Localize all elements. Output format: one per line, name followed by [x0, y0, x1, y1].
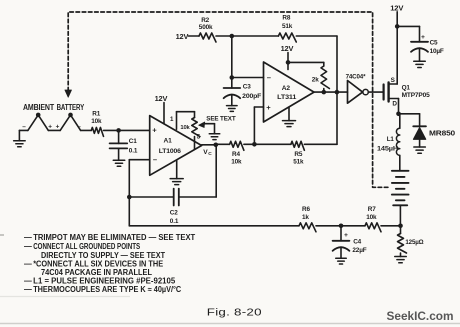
svg-text:Q1: Q1 — [402, 84, 411, 91]
wire 12V to A2 — [286, 53, 291, 70]
label BATTERY — [57, 103, 85, 112]
svg-text:+: + — [266, 103, 271, 112]
svg-text:CONNECT ALL GROUNDED POINTS: CONNECT ALL GROUNDED POINTS — [33, 242, 140, 251]
wire R4 to R5 — [244, 142, 291, 147]
capacitor C1 — [110, 130, 128, 160]
label D — [392, 100, 397, 107]
op-amp A1 LT1006 — [150, 116, 202, 176]
resistor R8 — [278, 33, 296, 42]
label 12V (R2 supply) — [176, 32, 189, 41]
resistor R1 — [91, 127, 103, 136]
label C2 0.1 — [170, 209, 179, 225]
label R6 1k — [302, 206, 310, 221]
svg-text:125µΩ: 125µΩ — [405, 239, 423, 246]
label R5 51k — [293, 151, 304, 165]
wire 12V branch to 2k — [288, 62, 324, 66]
svg-text:D: D — [392, 100, 397, 107]
label C4 22uF — [352, 239, 366, 254]
label R2 500k — [199, 17, 213, 31]
wire R5 to feedback rail — [304, 92, 337, 144]
wire Q1 drain down — [396, 99, 401, 117]
ground (C5) — [414, 61, 426, 67]
svg-text:R4: R4 — [232, 151, 240, 158]
svg-text:TRIMPOT MAY BE ELIMINATED — SE: TRIMPOT MAY BE ELIMINATED — SEE TEXT — [33, 233, 195, 242]
label L1 145uH — [377, 136, 399, 153]
svg-text:200pF: 200pF — [242, 93, 261, 100]
wire R2 to R8 — [216, 34, 278, 39]
svg-text:MTP7P05: MTP7P05 — [402, 92, 431, 99]
label 12V (top right) — [390, 3, 404, 12]
svg-text:C1: C1 — [129, 138, 137, 145]
ground (A2 V-) — [283, 107, 296, 127]
label 125uOhm — [405, 239, 423, 246]
svg-text:–: – — [22, 123, 26, 130]
resistor R4 — [230, 141, 244, 150]
wire R8 to feedback rail — [296, 35, 337, 37]
svg-text:—: — — [24, 259, 32, 268]
notes text block — [24, 233, 195, 294]
label 10k (trimpot) — [180, 125, 190, 131]
svg-text:R8: R8 — [282, 15, 290, 22]
label 74C04* — [346, 73, 366, 80]
trimpot 10k (pins 1-5) — [177, 112, 200, 150]
svg-text:10k: 10k — [366, 214, 377, 221]
svg-text:R7: R7 — [368, 206, 376, 213]
wire Vc to R4 — [216, 143, 230, 145]
wire A1 - input feedback — [129, 160, 149, 197]
svg-text:R1: R1 — [92, 110, 100, 117]
svg-text:—: — — [24, 242, 32, 251]
node C2 junction — [127, 195, 132, 200]
label 12V (A2 supply) — [281, 44, 294, 53]
svg-text:–: – — [77, 123, 81, 130]
transistor Q1 MTP7P05 — [384, 83, 399, 102]
svg-text:R6: R6 — [302, 206, 310, 213]
svg-text:THERMOCOUPLES ARE TYPE K ≈ 40µ: THERMOCOUPLES ARE TYPE K ≈ 40µV/°C — [33, 285, 181, 294]
svg-text:12V: 12V — [176, 32, 189, 41]
label C3 200pF — [242, 83, 261, 100]
svg-text:10k: 10k — [91, 118, 102, 125]
capacitor C5 — [411, 34, 428, 61]
wire R6 to C4 node — [316, 224, 365, 229]
inductor L1 — [396, 114, 399, 171]
svg-text:Fig. 8-20: Fig. 8-20 — [207, 308, 262, 319]
svg-text:SEE TEXT: SEE TEXT — [206, 115, 236, 122]
svg-text:5: 5 — [197, 133, 201, 140]
label R4 10k — [231, 151, 242, 165]
svg-text:500k: 500k — [199, 24, 213, 31]
ground (C3) — [227, 106, 238, 112]
wire 12V rail to Q1 source — [395, 12, 400, 84]
capacitor C4 — [333, 226, 350, 258]
wire dashed feedback sense path (battery thermocouple to battery stack) — [65, 12, 391, 187]
svg-text:+: + — [152, 126, 157, 135]
svg-text:+: + — [48, 124, 52, 131]
pin 1 — [170, 116, 174, 123]
svg-text:–: – — [267, 73, 271, 82]
svg-text:22µF: 22µF — [352, 247, 366, 254]
wire R1 to A1 + — [104, 128, 150, 133]
svg-text:BATTERY: BATTERY — [57, 103, 85, 112]
svg-text:LT311: LT311 — [277, 94, 297, 101]
label S — [391, 77, 396, 84]
svg-text:+: + — [344, 232, 348, 239]
ground (thermocouple left) — [14, 130, 28, 146]
svg-text:L1: L1 — [387, 136, 395, 143]
capacitor C3 — [224, 78, 241, 106]
svg-text:10k: 10k — [231, 158, 242, 165]
wire inverter to Q1 gate — [368, 91, 383, 93]
svg-text:A1: A1 — [164, 137, 173, 144]
label SEE TEXT (trimpot) — [206, 115, 236, 122]
thermocouple AMBIENT junction — [28, 113, 60, 131]
label R8 51k — [282, 15, 293, 31]
label MR850 — [429, 130, 455, 137]
wire A2 + input — [254, 107, 263, 144]
svg-text:+: + — [421, 34, 425, 41]
svg-text:0.1: 0.1 — [129, 147, 138, 154]
thermocouple BATTERY junction — [60, 113, 91, 131]
wire branch to MR850 — [399, 114, 420, 127]
ground (MR850) — [414, 147, 426, 153]
svg-text:10µF: 10µF — [430, 48, 444, 55]
wire A2 output — [314, 90, 348, 95]
wire 12V to A1 — [163, 103, 165, 124]
svg-text:+: + — [56, 124, 60, 131]
label C1 0.1 — [129, 138, 138, 155]
svg-text:51k: 51k — [282, 23, 293, 30]
svg-text:145µH: 145µH — [377, 146, 399, 153]
ground (A1 V-) — [170, 160, 183, 184]
wire to A2 - input — [232, 77, 264, 79]
svg-text:C4: C4 — [353, 239, 361, 246]
wire 12V to R2 — [189, 35, 200, 37]
resistor R5 — [291, 141, 304, 150]
svg-text:R5: R5 — [294, 151, 302, 158]
label C5 10uF — [430, 39, 444, 54]
wire bottom rail — [129, 197, 299, 226]
label Vc — [203, 149, 212, 157]
capacitor C2 — [129, 145, 216, 206]
resistor R7 — [365, 223, 381, 232]
label AMBIENT — [23, 103, 54, 112]
svg-text:2k: 2k — [312, 76, 319, 83]
svg-text:0.1: 0.1 — [170, 218, 179, 225]
svg-text:74C04*: 74C04* — [346, 73, 366, 80]
svg-text:10k: 10k — [180, 125, 190, 131]
resistor 2k — [321, 66, 329, 89]
ground (trimpot wiper) — [209, 134, 220, 140]
label R7 10k — [366, 206, 377, 221]
resistor 125uOhm — [398, 226, 407, 257]
svg-text:—: — — [24, 233, 32, 242]
wire R2 node down to C3 node — [230, 36, 235, 80]
ground (C1) — [113, 160, 125, 166]
svg-text:C3: C3 — [243, 83, 251, 90]
wire feedback rail — [336, 36, 338, 92]
ground (C4) — [336, 258, 347, 264]
wire branch to C5 — [397, 26, 419, 41]
label 2k — [312, 76, 319, 83]
resistor R6 — [299, 223, 316, 232]
caption Fig. 8-20 — [207, 308, 262, 319]
svg-text:AMBIENT: AMBIENT — [23, 103, 54, 112]
svg-text:–: – — [153, 155, 157, 164]
inverter U2 74C04 — [348, 81, 369, 104]
diode MR850 — [413, 126, 426, 147]
wire R7 to battery node — [381, 224, 403, 229]
svg-text:LT1006: LT1006 — [159, 148, 182, 155]
svg-text:51k: 51k — [293, 158, 304, 165]
svg-text:—: — — [24, 285, 32, 294]
svg-text:A2: A2 — [282, 85, 291, 92]
node Vc — [202, 143, 219, 148]
label 12V (A1 supply) — [155, 94, 168, 103]
resistor R2 — [199, 33, 216, 42]
svg-text:SeekIC.com: SeekIC.com — [387, 309, 454, 323]
label R1 10k — [91, 110, 102, 125]
polarity marks — [22, 123, 81, 130]
svg-text:12V: 12V — [155, 94, 168, 103]
svg-text:C5: C5 — [430, 39, 438, 46]
op-amp A2 LT311 — [264, 62, 315, 122]
watermark SeekIC.com — [387, 309, 454, 323]
svg-text:1k: 1k — [302, 214, 309, 221]
svg-text:12V: 12V — [281, 44, 294, 53]
pin 5 — [197, 133, 201, 140]
svg-text:MR850: MR850 — [429, 130, 455, 137]
battery stack (load battery) — [392, 171, 409, 226]
trimpot wiper arrow to ground — [199, 122, 215, 134]
ground (125uOhm) — [395, 257, 407, 263]
wire 2k to output node — [323, 89, 325, 93]
label Q1 MTP7P05 — [402, 84, 431, 98]
svg-text:C2: C2 — [170, 209, 178, 216]
